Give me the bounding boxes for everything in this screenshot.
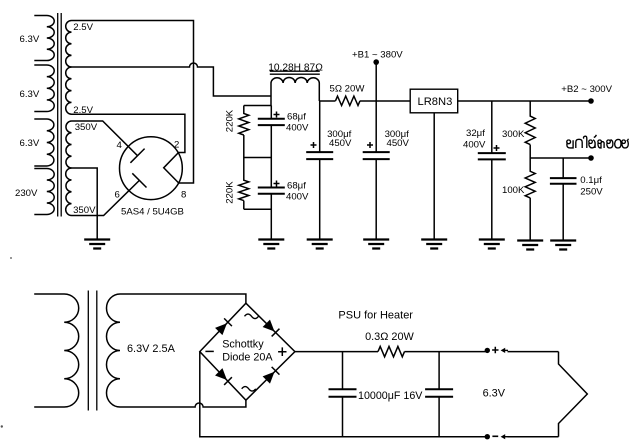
wire: 350V center tap to ground: [72, 168, 98, 240]
svg-text:10.28H 87Ω: 10.28H 87Ω: [268, 63, 323, 74]
transformer T1 5V filament winding lower half (2.5V): [66, 67, 72, 114]
transformer T1 5V filament winding upper half (2.5V): [66, 21, 72, 68]
wire: U1 adj pin to ground: [433, 113, 435, 240]
svg-text:4: 4: [117, 140, 123, 151]
speck: [10, 257, 12, 259]
resistor R5 100K: [525, 158, 535, 241]
label R2 220K: [225, 181, 236, 204]
label title PSU for Heater: [338, 309, 413, 321]
label bridge Schottky Diode 20A: [222, 338, 273, 363]
pin number 4: [117, 140, 123, 151]
wire: − rail from bridge to − terminal dot: [200, 352, 489, 437]
label U1 LR8N3: [418, 96, 453, 108]
svg-text:0.3Ω 20W: 0.3Ω 20W: [365, 331, 414, 343]
capacitor C2 68μf 400V: [258, 188, 285, 194]
choke L1 winding: [271, 78, 319, 84]
bridge rectifier BR1 diamond outline: [200, 303, 295, 400]
svg-text:400V: 400V: [463, 140, 486, 151]
svg-text:6.3V 2.5A: 6.3V 2.5A: [127, 343, 176, 355]
ground: C4: [363, 240, 389, 249]
label 6.3V (winding W2): [20, 89, 40, 100]
svg-text:250V: 250V: [580, 187, 603, 198]
label C4 300μf 450V: [385, 129, 410, 149]
polarity + of C2: [274, 181, 280, 187]
wire: +B1 node down through rail to C4: [375, 64, 377, 152]
capacitor C1 68μf 400V: [258, 119, 285, 125]
wire: C5 rail: [491, 101, 493, 240]
svg-text:220K: 220K: [225, 109, 236, 132]
choke L1 core lines: [270, 71, 320, 74]
label T2 secondary 6.3V 2.5A: [127, 343, 176, 355]
tube V1 cathode/filament chevron (pins 2,8): [164, 153, 179, 184]
wire: first filter cap rail: [270, 106, 272, 240]
pin number 8: [181, 190, 186, 201]
svg-text:6.3V: 6.3V: [20, 89, 40, 100]
node +B1 dot: [373, 59, 379, 65]
capacitor C8 10000μF 16V: [425, 352, 453, 437]
wire: − rail resumes after arrow mark: [508, 436, 559, 438]
svg-text:5Ω 20W: 5Ω 20W: [330, 84, 366, 95]
label R4 300K: [502, 129, 525, 140]
ground: C5: [479, 240, 505, 249]
label 350V (HV bottom): [73, 205, 96, 216]
diode D4 on bottom-right edge (pointing to + corner): [263, 367, 280, 384]
resistor R3 5Ω 20W: [336, 96, 361, 105]
svg-text:+B2 ~ 300V: +B2 ~ 300V: [561, 84, 612, 95]
svg-text:220K: 220K: [225, 181, 236, 204]
label net +B1 ~ 380V: [352, 50, 403, 61]
label 6.3V (winding W3): [20, 138, 40, 149]
transformer T2 core: [88, 291, 97, 411]
capacitor C4 300μf 450V: [363, 152, 390, 159]
svg-text:0.1μf: 0.1μf: [580, 175, 602, 186]
regulator U1 LR8N3 box: [410, 89, 458, 113]
svg-text:6.3V: 6.3V: [483, 388, 506, 400]
output − mark: [492, 435, 498, 437]
svg-text:400V: 400V: [286, 123, 309, 134]
svg-text:6.3V: 6.3V: [20, 138, 40, 149]
wire: T2 secondary top to bridge AC1: [120, 294, 246, 303]
resistor R6 0.3Ω 20W: [378, 346, 405, 356]
diode D3 on bottom-left edge (pointing to bottom corner): [215, 368, 232, 385]
output + arrow: [501, 348, 508, 353]
svg-text:Schottky: Schottky: [222, 338, 264, 350]
svg-text:6: 6: [115, 190, 120, 201]
bridge − terminal mark: [205, 350, 213, 352]
polarity + of C5: [494, 145, 500, 151]
svg-text:350V: 350V: [73, 205, 96, 216]
polarity + of C3: [311, 142, 317, 148]
svg-text:10000μF 16V: 10000μF 16V: [358, 390, 423, 402]
wire: balance mid node: [244, 157, 271, 159]
svg-text:5AS4 / 5U4GB: 5AS4 / 5U4GB: [121, 207, 184, 218]
wire: rail resistor to regulator: [360, 100, 410, 102]
svg-text:68μf: 68μf: [287, 181, 306, 192]
ground: C6: [550, 241, 576, 250]
wire: B+ from filament center tap to choke (with hop over pin-8 wire): [72, 63, 272, 96]
heater transformer T2 primary winding: [34, 294, 79, 407]
transformer T1 HV winding lower half (350V): [66, 168, 72, 216]
ground: filter cap rail: [258, 240, 284, 249]
wire: C6 from divider tap: [562, 158, 564, 241]
label choke value 10.28H 87Ω: [268, 63, 323, 74]
svg-text:6.3V: 6.3V: [20, 34, 40, 45]
output + terminal dot: [485, 348, 490, 353]
bridge + terminal mark: [278, 347, 286, 356]
wire: divider tap node to output dot: [530, 157, 591, 159]
label C3 300μf 450V: [327, 129, 352, 149]
output + mark: [492, 347, 498, 353]
tube V1 plate (pin 4): [130, 149, 144, 163]
svg-text:450V: 450V: [329, 138, 352, 149]
wire: rail after R6 up to + terminal dot: [405, 351, 489, 353]
ground: R5: [517, 241, 543, 250]
wire: 350V top lead to tube pin 4 plate: [72, 121, 138, 156]
bridge AC mark top ~: [245, 314, 259, 319]
bridge AC mark bottom ~: [242, 387, 256, 392]
label C2 68μf 400V: [286, 181, 309, 203]
heater transformer T2 secondary winding 6.3V 2.5A: [106, 294, 120, 407]
svg-text:Diode 20A: Diode 20A: [222, 351, 273, 363]
svg-text:68μf: 68μf: [287, 112, 306, 123]
ground: HV center tap: [84, 240, 110, 249]
wire: 2.5V top lead to tube pin 8: [72, 21, 194, 184]
polarity + of C1: [274, 112, 280, 118]
tube V1 plate (pin 6): [132, 173, 146, 187]
output connector chevron: [559, 352, 588, 437]
svg-text:2: 2: [174, 140, 179, 151]
label R1 220K: [225, 109, 236, 132]
svg-text:230V: 230V: [15, 188, 38, 199]
speck: [1, 425, 3, 427]
transformer T1 6.3V winding W2: [34, 65, 54, 112]
transformer T1 6.3V winding W1: [34, 16, 54, 61]
label 2.5V (filament bottom): [73, 105, 93, 116]
svg-text:8: 8: [181, 190, 186, 201]
wire: 350V bottom lead to tube pin 6 plate: [72, 180, 140, 215]
capacitor C3 300μf 450V: [306, 152, 333, 159]
svg-text:450V: 450V: [387, 138, 410, 149]
node +B2 dot: [588, 98, 594, 104]
pin number 6: [115, 190, 120, 201]
label 6.3V (winding W1): [20, 34, 40, 45]
diode D2 on top-right edge (pointing to + corner): [263, 320, 280, 337]
wire: B2 rail from regulator output: [458, 100, 591, 102]
node dot at divider tap output: [588, 155, 594, 161]
label R6 0.3Ω 20W: [365, 331, 414, 343]
transformer T1 HV winding upper half (350V): [66, 121, 72, 168]
output − arrow: [501, 434, 508, 439]
svg-text:100K: 100K: [502, 185, 525, 196]
svg-text:PSU for Heater: PSU for Heater: [338, 309, 413, 321]
wire: filter top node: [244, 105, 271, 107]
polarity + of C4: [367, 142, 373, 148]
label 230V (winding W4): [15, 188, 38, 199]
ground: U1 adj pin: [421, 240, 447, 249]
capacitor C6 0.1μf 250V: [550, 178, 577, 184]
wire: + rail from bridge: [295, 351, 378, 353]
label R5 100K: [502, 185, 525, 196]
wire: 2.5V bottom lead to tube pin 2: [72, 114, 185, 152]
transformer T1 core: [58, 13, 62, 217]
resistor R2 220K: [239, 158, 249, 210]
svg-text:350V: 350V: [75, 122, 98, 133]
wire: C4 to ground: [375, 159, 377, 239]
wire: choke left lead down to filter node: [270, 83, 272, 106]
wire: choke right lead down to B1 rail: [318, 83, 320, 101]
svg-text:300K: 300K: [502, 129, 525, 140]
wire: R2 bottom to cap rail: [244, 208, 271, 210]
wire: B1 rail from choke to LR8N3: [319, 100, 335, 102]
annotation Thai text ยกใส้หลอด (feeds tube heater): [567, 135, 629, 148]
label R3 5Ω 20W: [330, 84, 366, 95]
svg-text:32μf: 32μf: [466, 128, 485, 139]
transformer T1 6.3V winding W3: [34, 119, 54, 166]
svg-text:400V: 400V: [286, 192, 309, 203]
ground: C3: [307, 240, 333, 249]
label C7 10000μF 16V: [358, 390, 423, 402]
resistor R1 220K: [239, 106, 249, 158]
diode D1 on lower-left edge (anode at − corner, pointing to top corner): [215, 318, 232, 335]
rectifier tube V1 envelope (5AS4/5U4GB): [119, 137, 182, 200]
label C6 0.1μf 250V: [580, 175, 603, 198]
label net +B2 ~ 300V: [561, 84, 612, 95]
wire: C3 to ground: [319, 101, 321, 240]
label C5 32μf 400V: [463, 128, 486, 151]
label 350V (HV top): [75, 122, 98, 133]
svg-text:+B1 ~ 380V: +B1 ~ 380V: [352, 50, 403, 61]
resistor R4 300K: [525, 101, 535, 158]
label 2.5V (filament top): [73, 22, 93, 33]
output − terminal dot: [485, 434, 490, 439]
capacitor C7 10000μF 16V: [329, 352, 357, 437]
wire: + rail resumes after arrow mark: [508, 351, 559, 353]
capacitor C5 32μf 400V: [478, 153, 506, 159]
label output 6.3V: [483, 388, 506, 400]
svg-text:LR8N3: LR8N3: [418, 96, 453, 108]
label tube designation 5AS4 / 5U4GB: [121, 207, 184, 218]
label C1 68μf 400V: [286, 112, 309, 134]
svg-text:2.5V: 2.5V: [73, 22, 93, 33]
pin number 2: [174, 140, 179, 151]
transformer T1 230V winding W4: [34, 169, 54, 215]
wire: T2 secondary bottom to bridge AC2 (hop over negative lead): [120, 400, 246, 407]
